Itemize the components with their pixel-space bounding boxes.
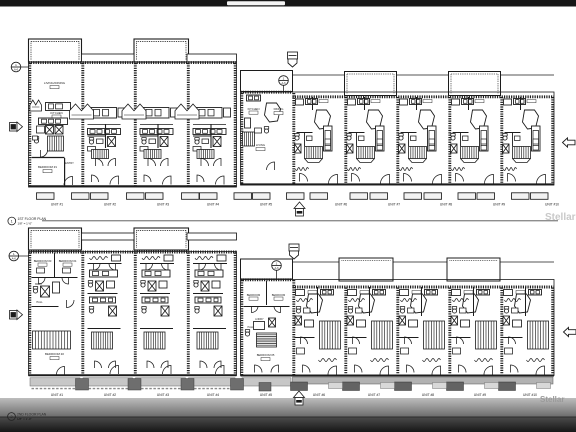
row1 porch stub 3 [127,193,145,200]
row1 porch stub 4 [146,193,164,200]
row2 left porch step 1 [76,379,89,391]
row2 left group slab outline [29,252,237,376]
svg-text:A-6: A-6 [12,256,17,260]
row2 right porch block 0 [291,382,308,391]
row2 right party wall 4 [448,288,451,376]
row1 porch stub 16 [477,193,495,200]
row1 unit7 balcony [345,72,397,96]
row2 right party wall 6 [551,288,554,376]
left datum marker row1 [11,62,21,72]
row1 porch stub 8 [253,193,271,200]
row1 left party wall 0 [28,63,31,186]
row2 unit1 balcony [29,228,82,250]
svg-text:UNIT #10: UNIT #10 [523,393,537,397]
svg-text:LNDRY: LNDRY [255,318,264,321]
row2 left group front wall [29,251,237,254]
row1 right group front wall [293,95,555,98]
row2 left party wall 4 [234,253,237,376]
svg-text:UNIT #6: UNIT #6 [335,203,347,207]
row1 unit9 balcony [449,72,501,96]
datum marker unit5 row1 [279,76,289,86]
svg-text:2ND FLOOR PLAN: 2ND FLOOR PLAN [17,413,47,417]
row2 unit9 balcony [447,258,500,281]
svg-text:UNIT #7: UNIT #7 [368,393,380,397]
row1 left group front wall [29,61,237,64]
1st floor plan title rule [42,220,558,222]
row1 unit8 interior [400,99,408,105]
row2 right group slab outline [241,280,555,376]
row2 right porch step 3 [485,383,499,389]
row2 unit7 interior [348,290,357,296]
left section arrow row1 [10,122,23,132]
right hollow arrow row1 [563,138,576,147]
svg-text:KITCHEN: KITCHEN [50,111,62,115]
svg-text:HALL: HALL [36,301,43,304]
svg-text:Stellar: Stellar [540,395,564,404]
row1 right party wall 2 [344,97,347,184]
row1 porch stub 6 [200,193,218,200]
row1 porch stub 18 [531,193,549,200]
row1 pantry peaks boundary u3u4 [175,104,199,119]
svg-text:LIVING: LIVING [256,143,265,147]
svg-text:BEDROOM #3: BEDROOM #3 [34,259,52,263]
row2 right party wall 5 [500,288,503,376]
svg-text:UNIT #3: UNIT #3 [157,393,169,397]
row1 right group overhang line [293,74,555,76]
row2 right porch block 1 [343,382,360,391]
row1 unit2 roof line [82,54,135,62]
row2 unit1 interior [54,253,56,277]
row1 unit4 interior [196,108,222,119]
row2 left group back wall [29,374,237,376]
bottom overlay upper gradient [0,398,576,417]
svg-text:UNIT #9: UNIT #9 [474,393,486,397]
row2 right porch strip [293,377,554,384]
svg-text:UNIT #3: UNIT #3 [157,203,169,207]
bottom overlay rule line [0,416,576,418]
row1 porch stub 1 [72,193,90,200]
row2 right party wall 0 [240,280,243,375]
row2 right group back wall [241,375,555,377]
svg-text:UNIT #4: UNIT #4 [207,393,219,397]
svg-text:UNIT #8: UNIT #8 [422,393,434,397]
row1 unit10 interior [504,99,512,105]
row2 unit2 roof line [82,233,135,240]
row1 left party wall 2 [134,63,137,186]
svg-text:BEDROOM: BEDROOM [247,293,260,297]
row1 unit1 balcony [29,39,82,62]
row2 unit9 interior [452,290,461,296]
row2 unit5 porch step [259,383,271,392]
svg-text:1/8" = 1'-0": 1/8" = 1'-0" [17,417,32,421]
svg-text:BEDROOM #5: BEDROOM #5 [257,353,275,357]
left section arrow row2 [10,310,23,320]
row1 unit3 interior [143,108,169,119]
elevation marker above row1 right group [288,52,298,67]
svg-text:LIVING/DINING: LIVING/DINING [44,81,66,85]
svg-text:UNIT #9: UNIT #9 [493,203,505,207]
svg-text:UNIT #2: UNIT #2 [104,203,116,207]
row1 right party wall 4 [448,97,451,184]
right hollow arrow row2 [564,327,576,336]
row2 right porch step 0 [329,383,343,389]
svg-text:UNIT #1: UNIT #1 [51,393,63,397]
2nd floor plan title circle [8,413,16,421]
svg-text:UNIT #6: UNIT #6 [313,393,325,397]
row1 unit5 interior [247,95,261,101]
elevation marker between row2 unit labels [294,391,305,405]
datum marker unit5 row2 [272,261,282,271]
row2 left porch step 4 [231,379,244,391]
svg-text:A-6: A-6 [274,266,279,270]
row1 porch stub 2 [91,193,109,200]
row2 unit2 interior [90,257,108,260]
row1 right group back wall [241,183,555,185]
elevation marker above row2 right group [289,244,299,259]
row1 right party wall 1 [292,93,295,184]
photo viewer top bar [0,0,576,7]
svg-text:BEDROOM #4: BEDROOM #4 [59,259,77,263]
row1 right party wall 5 [500,97,503,184]
svg-text:BEDROOM: BEDROOM [272,293,285,297]
row1 right party wall 6 [551,97,554,184]
row2 left porch 3 [189,378,236,386]
row1 porch stub 14 [424,193,442,200]
row1 porch stub 13 [404,193,422,200]
row2 right party wall 2 [344,288,347,376]
row2 unit10 interior [504,290,513,296]
row2 unit3 interior [142,257,160,260]
svg-text:A-6: A-6 [281,81,286,85]
row2 right porch step 2 [433,383,447,389]
row2 unit8 interior [400,290,409,296]
row1 unit5 front wall [241,91,293,94]
row1 porch stub 0 [37,193,55,200]
carousel progress notch [227,1,285,5]
row2 left porch step 2 [128,379,141,391]
1st floor plan title circle [8,217,16,225]
row2 left porch step 3 [181,379,194,391]
row1 porch stub 17 [512,193,530,200]
bottom overlay lower gradient [0,418,576,432]
left datum marker row2 [9,251,19,261]
row1 unit9 interior [452,99,460,105]
row1 porch stub 9 [287,193,305,200]
row1 unit6 interior [296,99,304,105]
svg-text:A-6: A-6 [14,67,19,71]
row1 porch stub 12 [370,193,388,200]
row1 porch stub 11 [350,193,368,200]
row1 porch stub 10 [310,193,328,200]
row1 unit7 interior [348,99,356,105]
row1 porch stub 15 [458,193,476,200]
svg-text:KITCHEN: KITCHEN [248,107,260,111]
row1 unit2 interior [91,108,117,119]
svg-text:UNIT #4: UNIT #4 [207,203,219,207]
row2 unit5 interior [266,281,268,305]
svg-text:UNIT #5: UNIT #5 [260,203,272,207]
row2 left party wall 0 [28,253,31,376]
svg-text:Stellar: Stellar [545,212,576,223]
svg-text:UNIT #8: UNIT #8 [440,203,452,207]
row1 porch stub 5 [182,193,200,200]
row2 right porch block 2 [395,382,412,391]
svg-text:UNIT #2: UNIT #2 [104,393,116,397]
row2 unit4 roof line [187,233,237,240]
row2 right party wall 1 [292,280,295,375]
row1 right party wall 0 [240,93,243,184]
row1 pantry peaks boundary u2u3 [122,104,146,119]
row2 right group overhang line [293,261,555,263]
row2 unit6 interior [296,290,305,296]
row2 right porch block 4 [499,382,516,391]
row1 left group slab outline [29,62,237,187]
svg-text:1/8" = 1'-0": 1/8" = 1'-0" [18,221,33,225]
row2 unit7 balcony [339,258,393,281]
row2 left party wall 1 [81,253,84,376]
elevation marker between row1 unit labels [294,202,305,216]
row2 unit5 balcony [241,259,293,279]
row2 left porch 2 [136,378,186,386]
row1 right party wall 3 [396,97,399,184]
row1 left party wall 4 [234,63,237,186]
row1 right group slab outline [241,92,555,185]
svg-text:BEDROOM #1: BEDROOM #1 [38,165,57,169]
svg-text:BATH: BATH [35,283,42,286]
row2 unit3 balcony [134,228,189,250]
row1 left group back wall [29,185,237,187]
row1 unit5 balcony [241,71,293,92]
row1 unit4 roof line [187,54,237,62]
row2 left party wall 3 [187,253,190,376]
svg-text:BEDROOM #2: BEDROOM #2 [45,352,64,356]
row2 unit5 front wall [241,278,293,281]
row2 right party wall 3 [396,288,399,376]
svg-text:HALL: HALL [248,326,255,329]
svg-text:ENTRY: ENTRY [65,161,74,165]
row2 left party wall 2 [134,253,137,376]
row1 left party wall 3 [187,63,190,186]
row2 right porch step 1 [381,383,395,389]
row1 unit3 balcony [134,39,189,62]
row1 porch stub 7 [234,193,252,200]
row2 right group front wall [293,286,555,289]
row2 unit4 interior [195,257,213,260]
row2 right porch step 4 [537,383,551,389]
row2 left porch 1 [83,378,133,386]
svg-text:UNIT #5: UNIT #5 [260,393,272,397]
svg-text:UNIT #1: UNIT #1 [51,203,63,207]
row2 right porch block 3 [447,382,464,391]
row2 left porch 0 [30,378,80,386]
svg-text:UNIT #7: UNIT #7 [388,203,400,207]
svg-text:UNIT #10: UNIT #10 [545,203,559,207]
svg-text:DINING: DINING [274,107,284,111]
row1 pantry peaks boundary u1u2 [70,104,94,119]
row1 left party wall 1 [81,63,84,186]
row2 unit5 porch [242,378,291,386]
